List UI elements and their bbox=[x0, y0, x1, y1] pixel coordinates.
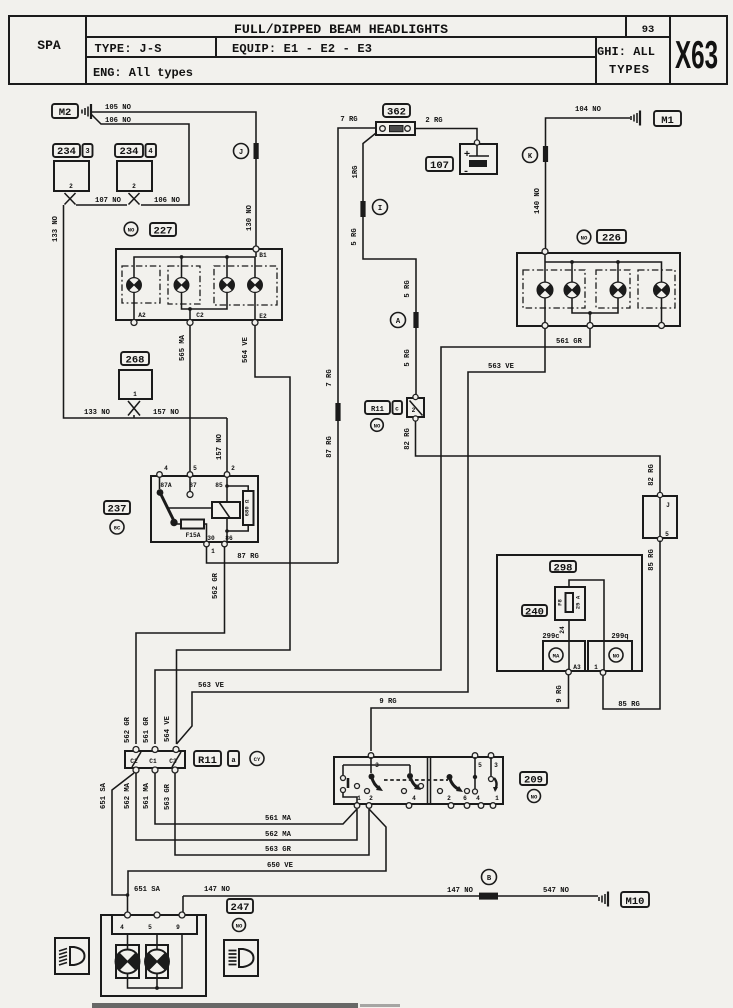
svg-text:5 RG: 5 RG bbox=[404, 280, 412, 297]
svg-text:563 GR: 563 GR bbox=[164, 783, 172, 810]
connector strip C2/C1/C3 bbox=[125, 751, 185, 768]
switch 209 top terminals bbox=[368, 753, 498, 769]
relay top terminals bbox=[157, 472, 230, 478]
wire 157 NO drop to relay bbox=[216, 418, 227, 472]
wire 651 SA bbox=[100, 773, 161, 895]
svg-text:563 VE: 563 VE bbox=[198, 682, 225, 690]
circle NO (209) bbox=[528, 790, 541, 803]
switch 209 lever 1 bbox=[365, 774, 384, 794]
switch 209 lever 3 bbox=[438, 774, 470, 794]
switch 209 label bbox=[520, 772, 547, 787]
wire 147 NO bbox=[183, 886, 598, 913]
svg-text:5: 5 bbox=[478, 762, 482, 769]
svg-text:147 NO: 147 NO bbox=[447, 887, 474, 895]
svg-text:J: J bbox=[666, 502, 670, 509]
fuse assembly 298 box bbox=[497, 555, 642, 671]
svg-text:268: 268 bbox=[126, 355, 145, 367]
247 terminals bbox=[125, 912, 186, 918]
svg-text:30: 30 bbox=[207, 535, 215, 542]
svg-text:85 RG: 85 RG bbox=[618, 701, 640, 709]
wire drop to 247 pin 4 bbox=[126, 893, 130, 913]
svg-text:237: 237 bbox=[108, 504, 127, 516]
wire 562 GR bbox=[124, 547, 225, 744]
svg-text:562 MA: 562 MA bbox=[265, 831, 292, 839]
headlamp unit 226 label bbox=[577, 230, 626, 245]
svg-text:6: 6 bbox=[463, 795, 467, 802]
227 terminals bbox=[131, 246, 259, 326]
svg-text:5 RG: 5 RG bbox=[404, 349, 412, 366]
226 terminals bbox=[542, 249, 665, 329]
svg-text:a: a bbox=[231, 757, 236, 765]
wire 563 VE bbox=[177, 329, 546, 744]
226 lamp 1 bbox=[537, 282, 553, 298]
247 lamp enclosures bbox=[116, 945, 168, 978]
svg-text:130 NO: 130 NO bbox=[246, 204, 254, 231]
svg-text:561 GR: 561 GR bbox=[143, 716, 151, 743]
connector J pin 5 box bbox=[643, 492, 677, 541]
connector mark B bbox=[479, 893, 498, 900]
svg-text:106 NO: 106 NO bbox=[105, 117, 132, 125]
svg-text:2: 2 bbox=[132, 183, 136, 190]
svg-text:4: 4 bbox=[148, 148, 153, 156]
svg-text:563 VE: 563 VE bbox=[488, 363, 515, 371]
wire 561 MA bbox=[143, 773, 357, 824]
svg-text:F15A: F15A bbox=[186, 532, 201, 539]
svg-text:4: 4 bbox=[120, 924, 124, 931]
svg-text:M10: M10 bbox=[626, 896, 645, 908]
svg-text:299c: 299c bbox=[542, 633, 559, 641]
svg-text:9 RG: 9 RG bbox=[379, 698, 396, 706]
svg-text:240: 240 bbox=[525, 607, 544, 619]
switch 209 box bbox=[334, 757, 503, 804]
svg-text:1: 1 bbox=[211, 548, 215, 555]
svg-text:MA: MA bbox=[553, 653, 560, 660]
svg-text:A3: A3 bbox=[573, 664, 581, 671]
svg-text:82 RG: 82 RG bbox=[404, 428, 412, 450]
relay switch arm bbox=[157, 477, 178, 526]
227 lamp 3 bbox=[220, 278, 235, 293]
circle J bbox=[234, 144, 249, 159]
svg-text:X63: X63 bbox=[675, 33, 718, 76]
wire 650 VE bbox=[128, 809, 386, 895]
connector mark on 7RG/87RG bbox=[335, 403, 340, 421]
svg-text:M2: M2 bbox=[59, 107, 72, 119]
wire 107 NO bbox=[76, 197, 127, 205]
connector 234 label (3) bbox=[53, 144, 93, 158]
relay 237 label bbox=[104, 501, 130, 516]
title X63 bbox=[675, 33, 718, 76]
svg-text:93: 93 bbox=[642, 24, 655, 36]
svg-text:R11: R11 bbox=[371, 406, 385, 414]
svg-text:2 RG: 2 RG bbox=[425, 117, 442, 125]
fuse box 362 label bbox=[383, 104, 410, 119]
247 lamp right bbox=[145, 950, 169, 974]
fuse F8 box bbox=[555, 587, 585, 620]
splice X under 268 bbox=[128, 401, 140, 418]
svg-text:247: 247 bbox=[231, 902, 250, 914]
svg-text:NO: NO bbox=[374, 423, 381, 430]
circle CY bbox=[250, 752, 264, 766]
298 label bbox=[550, 561, 576, 575]
circle 8C bbox=[110, 520, 124, 534]
headlamp unit 227 label bbox=[124, 222, 176, 237]
headlamp unit 226 box bbox=[517, 253, 680, 326]
strip terminals top bbox=[133, 747, 179, 753]
svg-text:105 NO: 105 NO bbox=[105, 104, 132, 112]
svg-text:J: J bbox=[239, 149, 243, 157]
svg-text:9 RG: 9 RG bbox=[556, 685, 564, 702]
svg-text:651 SA: 651 SA bbox=[100, 782, 108, 809]
svg-text:5: 5 bbox=[665, 531, 669, 538]
svg-text:M1: M1 bbox=[661, 115, 674, 127]
226 lamp 3 bbox=[610, 282, 626, 298]
svg-text:157 NO: 157 NO bbox=[216, 433, 224, 460]
svg-text:I: I bbox=[378, 205, 382, 213]
svg-text:87A: 87A bbox=[160, 482, 171, 489]
svg-text:564 VE: 564 VE bbox=[242, 336, 250, 363]
svg-text:NO: NO bbox=[613, 653, 620, 660]
battery 107 label bbox=[426, 157, 453, 172]
svg-text:B: B bbox=[487, 875, 492, 883]
svg-text:F8: F8 bbox=[557, 599, 564, 606]
svg-text:1: 1 bbox=[495, 795, 499, 802]
ground symbol M1 bbox=[631, 111, 640, 126]
svg-text:C1: C1 bbox=[149, 758, 157, 765]
connector mark K bbox=[543, 146, 548, 162]
switch 209 left contacts bbox=[341, 776, 360, 804]
title text SPA bbox=[37, 38, 61, 53]
ground symbol M10 bbox=[599, 892, 608, 907]
ground symbol M2 bbox=[82, 104, 91, 119]
svg-text:107: 107 bbox=[430, 160, 449, 172]
svg-text:ENG: All types: ENG: All types bbox=[93, 66, 193, 80]
svg-text:9: 9 bbox=[176, 924, 180, 931]
svg-text:A2: A2 bbox=[138, 312, 146, 319]
wire 7 RG top bbox=[326, 116, 376, 563]
svg-text:561 MA: 561 MA bbox=[143, 782, 151, 809]
title 93 bbox=[642, 24, 655, 36]
svg-text:24: 24 bbox=[559, 626, 566, 634]
relay 237 box bbox=[151, 465, 258, 555]
wire 82 RG bbox=[404, 421, 660, 494]
svg-text:EQUIP: E1 - E2 - E3: EQUIP: E1 - E2 - E3 bbox=[232, 42, 372, 56]
svg-text:NO: NO bbox=[128, 227, 135, 234]
svg-text:561 GR: 561 GR bbox=[556, 338, 583, 346]
svg-text:25 A: 25 A bbox=[575, 595, 582, 609]
circle NO (247) bbox=[233, 919, 246, 932]
switch 209 lever 2 bbox=[402, 773, 424, 794]
splice X under 234-3 bbox=[65, 193, 76, 205]
svg-text:561 MA: 561 MA bbox=[265, 815, 292, 823]
svg-text:140 NO: 140 NO bbox=[534, 187, 542, 214]
svg-text:157 NO: 157 NO bbox=[153, 409, 180, 417]
svg-text:85 RG: 85 RG bbox=[648, 549, 656, 571]
svg-text:562 MA: 562 MA bbox=[124, 782, 132, 809]
svg-text:3: 3 bbox=[85, 148, 89, 156]
component 268 box bbox=[119, 370, 152, 399]
switch 209 internal pin3 bus bbox=[343, 757, 410, 775]
247 lamp left bbox=[116, 950, 140, 974]
title ENG: All types bbox=[93, 66, 193, 80]
title EQUIP: E1 - E2 - E3 bbox=[232, 42, 372, 56]
switch 209 right section pins bbox=[473, 757, 494, 794]
226 internal bus wiring bbox=[545, 255, 662, 282]
svg-text:7 RG: 7 RG bbox=[326, 369, 334, 386]
svg-text:547 NO: 547 NO bbox=[543, 887, 570, 895]
svg-text:298: 298 bbox=[554, 563, 573, 575]
svg-text:FULL/DIPPED BEAM HEADLIGHTS: FULL/DIPPED BEAM HEADLIGHTS bbox=[234, 22, 448, 37]
connector mark J bbox=[254, 143, 259, 159]
svg-text:TYPES: TYPES bbox=[609, 63, 649, 77]
wire 87 RG bbox=[207, 547, 339, 563]
wire 561 GR bbox=[143, 329, 590, 744]
svg-text:4: 4 bbox=[164, 465, 168, 472]
component 234-4 box bbox=[117, 161, 152, 191]
svg-text:8C: 8C bbox=[114, 525, 121, 532]
earth M1 label box bbox=[654, 111, 681, 127]
svg-text:7 RG: 7 RG bbox=[340, 116, 357, 124]
wire 104 NO bbox=[534, 106, 630, 251]
lamp unit 247 label bbox=[227, 899, 253, 914]
main beam icon box bbox=[224, 940, 258, 976]
svg-text:147 NO: 147 NO bbox=[204, 886, 231, 894]
svg-text:NO: NO bbox=[236, 923, 243, 930]
svg-text:1: 1 bbox=[133, 391, 137, 398]
battery 107 bbox=[460, 140, 497, 178]
motor unit 299q bbox=[588, 633, 632, 675]
svg-text:4: 4 bbox=[476, 795, 480, 802]
circle NO (R11 mid) bbox=[371, 419, 384, 432]
switch 209 right hook bbox=[493, 778, 498, 792]
svg-text:CY: CY bbox=[254, 756, 261, 763]
svg-text:680 Ω: 680 Ω bbox=[244, 499, 251, 516]
svg-text:562 GR: 562 GR bbox=[124, 716, 132, 743]
svg-text:NO: NO bbox=[531, 794, 538, 801]
svg-text:226: 226 bbox=[602, 233, 621, 245]
circle I bbox=[373, 200, 388, 215]
connector mark A bbox=[413, 312, 418, 328]
earth M10 label box bbox=[621, 892, 649, 908]
svg-text:87 RG: 87 RG bbox=[237, 553, 259, 561]
svg-text:2: 2 bbox=[231, 465, 235, 472]
svg-text:E2: E2 bbox=[259, 313, 267, 320]
svg-text:564 VE: 564 VE bbox=[164, 715, 172, 742]
svg-text:1RG: 1RG bbox=[352, 166, 360, 179]
svg-text:563 GR: 563 GR bbox=[265, 846, 292, 854]
226 lamp 2 bbox=[564, 282, 580, 298]
relay fuse F15A bbox=[174, 520, 207, 542]
relay resistor 680 bbox=[243, 491, 254, 525]
svg-text:107 NO: 107 NO bbox=[95, 197, 122, 205]
svg-text:651 SA: 651 SA bbox=[134, 886, 161, 894]
svg-text:104 NO: 104 NO bbox=[575, 106, 602, 114]
227 bottom wiring bbox=[134, 292, 255, 320]
svg-text:c: c bbox=[395, 406, 399, 413]
svg-text:GHI: ALL: GHI: ALL bbox=[597, 45, 655, 59]
lamp unit 247 box bbox=[101, 915, 206, 996]
splice X under 234-4 bbox=[129, 193, 140, 205]
connector 268 label bbox=[121, 352, 149, 367]
title block frame bbox=[9, 16, 727, 84]
wire 565 MA bbox=[179, 326, 190, 471]
switch 209 bottom terminals bbox=[354, 795, 499, 808]
wire 106 NO bbox=[91, 114, 189, 205]
svg-text:133 NO: 133 NO bbox=[52, 215, 60, 242]
svg-text:209: 209 bbox=[524, 775, 543, 787]
svg-text:562 GR: 562 GR bbox=[212, 572, 220, 599]
dipped beam icon box bbox=[55, 938, 89, 974]
relay 87 contact bbox=[187, 477, 193, 498]
227 dash-dot enclosures bbox=[122, 266, 277, 305]
svg-text:362: 362 bbox=[387, 107, 406, 119]
svg-text:A: A bbox=[396, 318, 401, 326]
svg-text:299q: 299q bbox=[611, 633, 628, 641]
svg-text:5: 5 bbox=[148, 924, 152, 931]
247 internal wiring bbox=[128, 934, 183, 990]
svg-text:2: 2 bbox=[369, 795, 373, 802]
title FULL/DIPPED BEAM HEADLIGHTS bbox=[234, 22, 448, 37]
svg-text:SPA: SPA bbox=[37, 38, 61, 53]
svg-text:87 RG: 87 RG bbox=[326, 436, 334, 458]
wire 562 MA bbox=[124, 773, 357, 840]
svg-text:1: 1 bbox=[594, 664, 598, 671]
298 internal wiring bbox=[559, 580, 604, 641]
motor unit 299c bbox=[542, 633, 585, 675]
svg-text:227: 227 bbox=[154, 226, 173, 238]
227 lamp 1 bbox=[127, 278, 142, 293]
earth M2 label box bbox=[52, 104, 78, 119]
svg-text:5: 5 bbox=[193, 465, 197, 472]
svg-text:B1: B1 bbox=[259, 252, 267, 259]
circle B bbox=[482, 870, 497, 885]
svg-text:3: 3 bbox=[494, 762, 498, 769]
227 lamp 2 bbox=[174, 278, 189, 293]
fuse 362 body bbox=[376, 122, 415, 135]
scan smudge bottom bbox=[92, 1003, 400, 1008]
svg-text:565 MA: 565 MA bbox=[179, 334, 187, 361]
svg-text:85: 85 bbox=[215, 482, 223, 489]
wire 564 VE bbox=[164, 326, 290, 744]
connector R11 label row (mid) bbox=[365, 401, 402, 414]
relay coil bbox=[167, 502, 240, 518]
title TYPE: J-S bbox=[95, 42, 162, 56]
226 dash-dot enclosures bbox=[523, 270, 675, 308]
226 lamp 4 bbox=[654, 282, 670, 298]
226 bottom wiring bbox=[545, 298, 662, 323]
wire 133 NO bbox=[52, 205, 227, 418]
wire 85 RG bbox=[603, 541, 660, 710]
circle K bbox=[523, 148, 538, 163]
svg-text:4: 4 bbox=[412, 795, 416, 802]
title GHI: ALL TYPES bbox=[597, 45, 655, 77]
svg-text:K: K bbox=[528, 153, 533, 161]
wire 2 RG bbox=[415, 117, 477, 140]
240 label bbox=[522, 605, 547, 619]
connector mark I bbox=[360, 201, 365, 217]
component 234-3 box bbox=[54, 161, 89, 191]
connector R11 pin 2 box bbox=[407, 394, 424, 421]
svg-text:NO: NO bbox=[581, 235, 588, 242]
strip terminals bottom bbox=[133, 767, 178, 773]
227 lamp 4 bbox=[248, 278, 263, 293]
svg-text:R11: R11 bbox=[198, 755, 217, 767]
svg-text:C2: C2 bbox=[196, 312, 204, 319]
headlamp unit 227 box bbox=[116, 249, 282, 320]
wire 9 RG bbox=[371, 675, 569, 751]
wire 1RG / 5 RG bbox=[351, 133, 416, 396]
wire 563 GR bbox=[164, 773, 369, 855]
svg-text:2: 2 bbox=[447, 795, 451, 802]
connector 234 label (4) bbox=[115, 144, 156, 158]
circle A bbox=[391, 313, 406, 328]
relay bottom terminals bbox=[204, 541, 228, 547]
svg-text:-: - bbox=[463, 166, 469, 178]
svg-text:106 NO: 106 NO bbox=[154, 197, 181, 205]
svg-text:82 RG: 82 RG bbox=[648, 464, 656, 486]
svg-text:234: 234 bbox=[57, 146, 76, 158]
svg-text:2: 2 bbox=[69, 183, 73, 190]
svg-text:2: 2 bbox=[412, 407, 416, 414]
connector R11 label row (low) bbox=[194, 751, 239, 767]
svg-text:133 NO: 133 NO bbox=[84, 409, 111, 417]
svg-text:650 VE: 650 VE bbox=[267, 862, 294, 870]
svg-text:TYPE: J-S: TYPE: J-S bbox=[95, 42, 162, 56]
svg-text:5 RG: 5 RG bbox=[351, 228, 359, 245]
svg-text:234: 234 bbox=[120, 146, 139, 158]
switch 209 mechanical link dashes bbox=[384, 779, 448, 781]
svg-text:+: + bbox=[464, 149, 470, 161]
wire 105 NO bbox=[92, 104, 256, 249]
relay internal wiring 85/86 bbox=[225, 477, 248, 541]
227 internal bus wiring bbox=[134, 251, 256, 278]
